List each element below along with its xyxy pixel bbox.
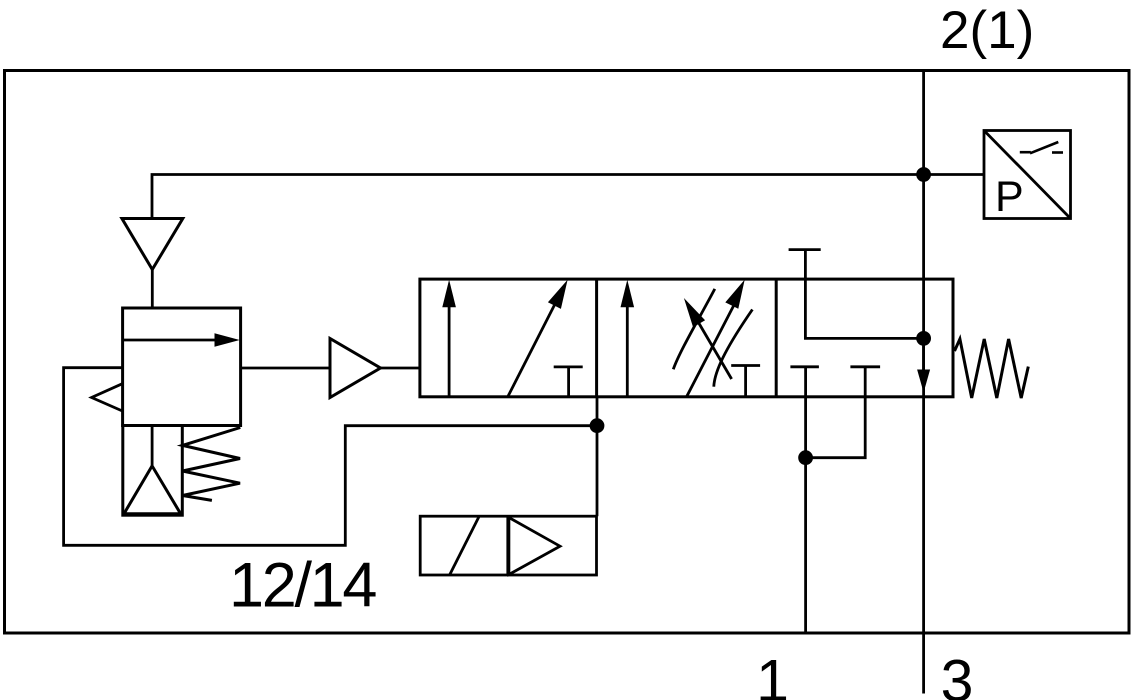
enclosure border [5,71,1130,634]
wire: jumper from port1 node [806,367,866,458]
chamber1 diagonal arrow [508,302,556,397]
chamber1 blocked port T [554,365,583,368]
solenoid pilot valve Y1 body [420,516,596,575]
pressure sensor switch contact [1020,142,1063,153]
svg-text:P: P [995,173,1024,221]
junction dot at (923.6,174.5) [916,167,931,182]
solenoid coil diagonal [450,517,479,575]
solenoid pilot triangle [509,518,560,575]
wire: main vertical net 2 line x=923.6 [922,71,925,694]
regulator pilot stem [151,426,154,466]
wire: regulator output [241,367,330,370]
wire: port 1 line [804,367,807,633]
valve divider 1 [595,279,598,397]
junction dot at (923.6,338.4) [916,331,931,346]
chamber2 vertical arrow [626,303,629,397]
svg-text:2(1): 2(1) [940,1,1034,60]
chamber2 throttle arc left [673,289,715,369]
wire: valve divider down to solenoid [596,397,599,516]
regulator V1 body [123,308,241,426]
chamber3 top blocked port T [789,248,821,251]
valve divider 2 [775,279,778,397]
junction dot at (597,425.7) [590,418,605,433]
pressure sensor U1 box [984,131,1071,219]
chamber3 bottom right T [850,365,880,368]
chamber2 diagonal arrow down [697,320,732,379]
wire: pilot feedback loop 12/14 [64,368,597,546]
main valve body [420,279,953,397]
solenoid divider [506,516,509,575]
chamber3 down arrow [922,338,925,372]
wire: booster to valve [381,367,420,370]
regulator relief arrowhead [92,384,123,411]
chamber2 diagonal arrow up [687,305,734,396]
svg-text:3: 3 [941,648,974,700]
chamber2 throttle arc right [714,310,753,387]
wire: top horizontal pilot line y=174.5 [152,175,984,220]
wire: triangle to regulator [151,270,154,309]
svg-text:12/14: 12/14 [229,551,376,621]
booster triangle [330,339,381,398]
svg-text:1: 1 [756,648,789,700]
regulator spring [183,428,241,501]
chamber2 blocked port T [731,364,760,367]
exhaust triangle (down) [122,219,183,270]
return spring [955,339,1029,398]
regulator flow arrow [123,339,222,342]
junction dot at (805.6,457.7) [798,450,813,465]
chamber3 bottom left T (port 1) [790,365,819,368]
regulator pilot triangle [124,466,181,514]
pressure sensor diagonal [984,131,1071,219]
chamber1 vertical arrow [448,303,451,397]
regulator pilot section [123,426,183,516]
